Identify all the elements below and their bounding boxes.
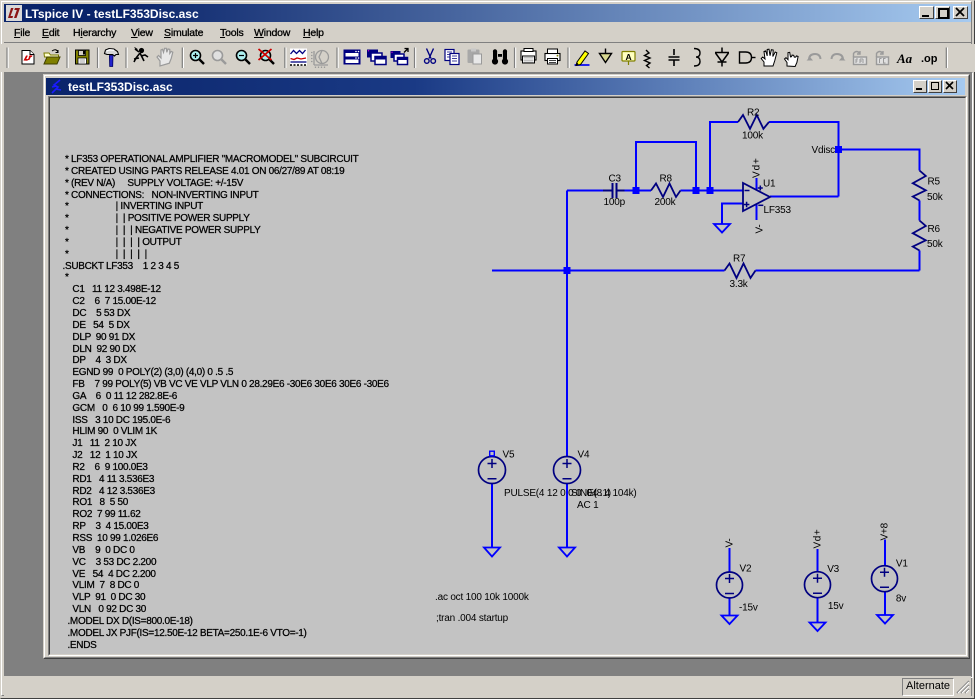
wire: opamp noninverting input to ground (722, 204, 743, 225)
wire: opamp V- pin (756, 205, 758, 221)
op-amp inverting input mark (745, 190, 750, 192)
capacitor C3 pin leads (603, 190, 625, 192)
cascade restore icon (391, 49, 409, 65)
.op icon (921, 53, 938, 65)
svg-text:Vd+: Vd+ (813, 529, 824, 549)
svg-text:100k: 100k (742, 130, 764, 141)
waveform icon (290, 49, 307, 66)
undo icon grayed (807, 54, 821, 61)
menu bar (4, 24, 971, 42)
cascade windows icon (367, 50, 386, 65)
svg-text:V3: V3 (827, 564, 839, 575)
svg-text:V-: V- (755, 224, 766, 233)
wire: opamp output (770, 196, 839, 198)
no zoom icon (259, 49, 275, 64)
wire: V4 long vertical (566, 191, 568, 457)
op-amp U1 body (743, 183, 770, 211)
diode icon (715, 48, 729, 67)
svg-text:Vdisc: Vdisc (812, 145, 836, 156)
svg-text:R7: R7 (733, 254, 746, 265)
junction node Vdisc (835, 146, 842, 153)
redo icon grayed (832, 54, 846, 61)
ground symbol icon (600, 49, 612, 63)
resize grip (955, 679, 970, 694)
main title bar (4, 4, 971, 22)
resistor R7 (725, 264, 756, 279)
mirror icon grayed (854, 51, 867, 65)
svg-text:SINE(8 4 104k): SINE(8 4 104k) (571, 488, 637, 499)
label A icon (622, 52, 635, 66)
print icon (545, 49, 560, 64)
wire: R6 to bottom rail (919, 251, 921, 271)
hand grayed icon (157, 48, 173, 66)
wire: R2 right to output vertical (769, 122, 839, 197)
inductor icon (694, 49, 700, 67)
and gate icon (740, 52, 756, 63)
ground below V5 (484, 548, 500, 557)
cut scissors icon (425, 49, 436, 64)
wire: V4 to ground (566, 484, 568, 548)
svg-text:R2: R2 (747, 107, 760, 118)
resistor icon (645, 50, 651, 68)
wire: V2 top and bottom (729, 548, 731, 616)
svg-text:100p: 100p (604, 197, 626, 208)
V5 unconnected pin marker (490, 451, 495, 456)
wire: feedback loop over R8 (636, 142, 696, 191)
child window (43, 74, 970, 659)
new schematic icon (22, 51, 34, 65)
open folder icon (44, 50, 60, 64)
svg-text:AC 1: AC 1 (577, 500, 599, 511)
zoom full grayed icon (213, 51, 227, 65)
svg-text:Aa: Aa (896, 51, 913, 66)
svg-text:U1: U1 (763, 178, 776, 189)
capacitor C3 (613, 183, 617, 198)
ground below V3 (810, 623, 826, 632)
svg-text:R5: R5 (928, 176, 941, 187)
run man icon (134, 48, 148, 63)
voltage source V5 (479, 457, 506, 484)
wire: R2 branch vertical (710, 122, 738, 191)
drag hand icon (785, 52, 799, 66)
copy icon (445, 50, 459, 65)
wire: opamp V+ pin (756, 178, 758, 190)
voltage source V4 (554, 457, 581, 484)
ground at opamp input (714, 224, 730, 233)
svg-text:8v: 8v (896, 594, 906, 605)
wire: V3 top and bottom (817, 549, 819, 623)
resistor R6 (913, 221, 926, 251)
svg-text:-15v: -15v (739, 602, 758, 613)
resistor R2 (738, 115, 769, 129)
resistor R8 (651, 184, 681, 198)
op-amp V- pin mark (758, 204, 763, 206)
junction at R2 branch (707, 187, 714, 194)
svg-text:V-: V- (725, 538, 736, 547)
junction at bottom rail / V4 (564, 267, 571, 274)
svg-text:V+8: V+8 (880, 522, 891, 540)
junction at R8 right (693, 187, 700, 194)
wire: between R5 and R6 (919, 201, 921, 221)
svg-text:C3: C3 (609, 173, 622, 184)
svg-text:.ac oct 100 10k 1000k: .ac oct 100 10k 1000k (435, 592, 530, 603)
wire: main input horizontal C3-R8-opamp (567, 190, 743, 192)
plot pane grayed icon (311, 51, 329, 69)
caption buttons (919, 6, 934, 19)
svg-text:R8: R8 (660, 173, 673, 184)
svg-text:200k: 200k (655, 197, 677, 208)
ground below V1 (877, 615, 893, 624)
schematic client area (48, 96, 967, 656)
ground below V4 (559, 548, 575, 557)
junction at C3-R8 (633, 187, 640, 194)
voltage source V3 (805, 572, 831, 598)
svg-text:15v: 15v (828, 601, 844, 612)
text Aa icon (896, 51, 913, 66)
paste icon grayed (468, 49, 482, 65)
svg-text:V4: V4 (578, 450, 590, 461)
pencil draw icon (575, 51, 590, 66)
resistor R5 (913, 171, 926, 201)
status bar (4, 676, 971, 696)
save floppy icon (76, 50, 90, 64)
child caption buttons (913, 80, 927, 93)
svg-text:3.3k: 3.3k (730, 279, 749, 290)
capacitor icon (669, 49, 680, 66)
op-amp V+ pin mark (758, 186, 763, 191)
svg-text:;tran .004 startup: ;tran .004 startup (436, 613, 509, 624)
tile windows icon (344, 50, 360, 64)
netlist text block (spice model comment) (63, 154, 389, 651)
svg-text:V2: V2 (740, 564, 752, 575)
svg-text:50k: 50k (927, 239, 944, 250)
voltage source V2 (717, 572, 743, 598)
zoom out icon (237, 51, 251, 65)
svg-text:LF353: LF353 (764, 205, 792, 216)
move hand icon (761, 49, 777, 66)
print fax icon (521, 49, 536, 64)
wire: bottom rail with R7 (492, 270, 920, 272)
svg-text:.op: .op (921, 53, 938, 65)
toolbar (0, 44, 975, 72)
svg-text:A: A (626, 52, 632, 62)
svg-text:Vd+: Vd+ (752, 157, 763, 178)
svg-text:R6: R6 (928, 224, 941, 235)
svg-text:V5: V5 (503, 450, 515, 461)
wire: V5 to ground (491, 484, 493, 548)
voltage source V1 (872, 566, 898, 592)
find binoculars icon (492, 49, 508, 64)
ground below V2 (722, 616, 738, 625)
wire: Vdisc to right branch (839, 150, 920, 171)
svg-text:V1: V1 (896, 558, 908, 569)
child window icon (blue scribble) (50, 79, 64, 94)
svg-text:50k: 50k (927, 192, 944, 203)
rotate icon grayed (877, 51, 889, 65)
zoom in icon (191, 51, 205, 65)
child title bar (46, 78, 965, 95)
app icon LT logo (6, 5, 22, 21)
op-amp noninverting input mark (744, 202, 750, 208)
hammer icon (105, 49, 119, 67)
wire: V1 top and bottom (884, 540, 886, 616)
